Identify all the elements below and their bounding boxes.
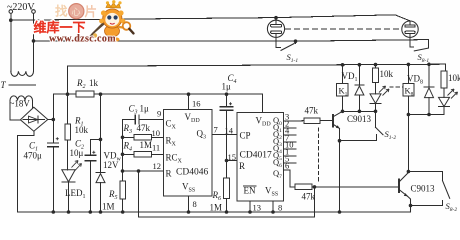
- node emitter tee: [338, 139, 342, 143]
- svg-text:6: 6: [285, 161, 289, 171]
- svg-text:11: 11: [152, 143, 160, 153]
- transformer core: [9, 84, 36, 86]
- transistor Q1 C9013: [333, 111, 343, 128]
- node R6 ground: [225, 210, 229, 214]
- node K1 rail: [341, 63, 345, 67]
- wire oscillator left net: [122, 120, 124, 182]
- svg-text:47k: 47k: [305, 106, 319, 116]
- svg-text:S1-1: S1-1: [287, 52, 299, 64]
- resistor R8 47k channel8: [295, 184, 399, 190]
- wire U1 pin8: [188, 196, 190, 212]
- resistor R2: [76, 91, 94, 97]
- wire dashed channels: [318, 128, 320, 184]
- wire top rail L: [11, 15, 410, 21]
- watermark weiku red text: [34, 20, 117, 45]
- svg-text:VD1: VD1: [342, 71, 358, 83]
- wire K8 bottom bus: [408, 114, 444, 116]
- svg-text:1μ: 1μ: [140, 104, 150, 114]
- svg-text:1k: 1k: [89, 78, 99, 88]
- node pin15: [225, 159, 229, 163]
- svg-text:9: 9: [157, 109, 161, 119]
- node R3 left: [121, 136, 125, 140]
- svg-text:~18V: ~18V: [10, 99, 31, 109]
- zener VDw: [96, 173, 105, 212]
- wire feedback loop: [139, 171, 315, 217]
- transformer T secondary: [10, 96, 33, 120]
- svg-text:10μ: 10μ: [70, 148, 84, 158]
- LED channel1: [370, 86, 389, 127]
- node bridge output: [52, 118, 56, 122]
- svg-text:www.dzsc.com: www.dzsc.com: [49, 34, 116, 45]
- svg-text:CD4046: CD4046: [176, 168, 208, 178]
- wire terminal N down: [33, 13, 35, 41]
- node VD8 rail: [427, 63, 431, 67]
- node reset net: [121, 169, 125, 173]
- resistor 10k channel1: [373, 68, 379, 94]
- svg-text:RCX: RCX: [166, 153, 183, 165]
- pin stub 1: [284, 155, 297, 157]
- node Q2 collector: [407, 170, 411, 174]
- pin stub 6: [284, 169, 291, 171]
- transistor Q2 C9013: [399, 173, 411, 213]
- wire pin 12 reset: [123, 170, 164, 172]
- svg-text:S8-2: S8-2: [446, 201, 458, 213]
- svg-text:T: T: [1, 80, 7, 90]
- node C2 ground: [89, 210, 93, 214]
- node feedback to base: [313, 185, 317, 189]
- svg-text:47k: 47k: [302, 192, 316, 202]
- svg-text:心: 心: [72, 7, 81, 17]
- node rail4 R1: [66, 92, 70, 96]
- wire collector bus: [343, 110, 376, 112]
- node K8 bus: [407, 113, 411, 117]
- svg-text:S1-2: S1-2: [385, 129, 397, 141]
- wire main +V branch down: [100, 94, 102, 172]
- svg-text:47k: 47k: [137, 123, 151, 133]
- pin stub 4: [284, 134, 297, 136]
- svg-text:16: 16: [192, 99, 201, 109]
- node pin13 ground: [248, 210, 252, 214]
- node lamp EL1 top: [274, 16, 278, 20]
- overline EN: [244, 185, 257, 187]
- node rail4 C4: [225, 92, 229, 96]
- svg-text:VDD: VDD: [185, 112, 201, 124]
- switch S1-1: [276, 37, 297, 50]
- lamp EL8: [402, 21, 418, 37]
- svg-text:S8-1: S8-1: [418, 52, 430, 64]
- wire U1 pin16: [188, 94, 190, 109]
- lamp EL1: [267, 20, 284, 37]
- svg-text:CD4017: CD4017: [240, 151, 272, 161]
- svg-text:片: 片: [85, 4, 98, 19]
- resistor R1: [65, 94, 70, 170]
- node collector: [341, 110, 345, 114]
- svg-text:1M: 1M: [210, 203, 223, 213]
- wire terminal L down: [10, 13, 12, 20]
- svg-text:C9013: C9013: [347, 114, 372, 124]
- node K8 rail: [407, 63, 411, 67]
- node pin16 rail4: [187, 92, 191, 96]
- svg-text:7: 7: [214, 125, 218, 135]
- node rail L at transformer: [9, 18, 13, 22]
- svg-text:10k: 10k: [448, 73, 460, 83]
- wire dashed channel gap: [390, 86, 405, 88]
- watermark faded text zhaoxinpian: [55, 4, 97, 20]
- diode VD8: [424, 64, 434, 114]
- node C2 branch: [99, 138, 103, 142]
- resistor R7 47k channel1: [296, 118, 333, 124]
- svg-text:R3: R3: [123, 123, 133, 135]
- svg-text:R: R: [239, 161, 245, 171]
- node C1 ground: [52, 210, 56, 214]
- switch S8-1: [410, 37, 428, 51]
- svg-text:12: 12: [153, 161, 162, 171]
- svg-text:1M: 1M: [102, 202, 115, 212]
- IC U1 CD4046: [163, 110, 212, 197]
- LED channel8: [439, 89, 458, 115]
- svg-text:1M: 1M: [140, 140, 153, 150]
- resistor R6: [224, 161, 230, 213]
- wire dashed between lamps: [286, 28, 402, 30]
- resistor R4: [123, 152, 164, 158]
- svg-text:R2: R2: [76, 78, 86, 90]
- node emitter ground: [338, 210, 342, 214]
- wire Q1 emitter down: [339, 128, 341, 212]
- pin stub 2: [284, 127, 297, 129]
- svg-text:470μ: 470μ: [24, 151, 43, 161]
- svg-text:Q7: Q7: [273, 168, 282, 180]
- svg-text:10k: 10k: [75, 125, 89, 135]
- node rail4 right of R2: [99, 92, 103, 96]
- terminal N: [32, 10, 36, 14]
- svg-text:C3: C3: [129, 104, 138, 116]
- svg-text:VSS: VSS: [265, 186, 278, 198]
- watermark faded seal: [69, 4, 84, 19]
- svg-text:8: 8: [193, 199, 197, 209]
- diode VD1: [355, 65, 364, 112]
- svg-text:RX: RX: [166, 136, 177, 148]
- node VDw ground: [99, 210, 103, 214]
- svg-text:R6: R6: [212, 190, 222, 202]
- svg-text:C9013: C9013: [411, 184, 436, 194]
- pin stub 10: [284, 148, 297, 150]
- svg-text:R5: R5: [108, 189, 118, 201]
- svg-text:CX: CX: [166, 119, 177, 131]
- svg-text:10: 10: [152, 128, 161, 138]
- svg-text:12V: 12V: [103, 160, 119, 170]
- pin stub 7: [284, 141, 297, 143]
- wire ground rail: [18, 211, 411, 213]
- capacitor C2: [85, 139, 101, 212]
- node R4 left: [121, 153, 125, 157]
- svg-text:VSS: VSS: [182, 182, 195, 194]
- svg-text:找: 找: [55, 4, 68, 19]
- node VD1 rail: [358, 63, 362, 67]
- switch S1-2: [340, 127, 384, 140]
- node pin8 ground: [187, 210, 191, 214]
- node LED1 ground: [67, 210, 71, 214]
- pin stub 3: [284, 120, 297, 122]
- capacitor C1: [48, 120, 59, 213]
- wire collector to S8-2: [408, 172, 442, 181]
- relay K8: [403, 64, 414, 171]
- wire Q1 collector: [342, 96, 344, 111]
- svg-text:R4: R4: [123, 141, 133, 153]
- wire rail N: [34, 40, 429, 49]
- svg-text:13: 13: [253, 203, 262, 213]
- node LED chain collector: [374, 110, 378, 114]
- node R5 ground: [121, 210, 125, 214]
- node VD8 bus: [427, 113, 431, 117]
- resistor 10k channel8: [441, 71, 447, 98]
- wire pin7 to pin14: [212, 134, 237, 136]
- node feedback tee: [137, 169, 141, 173]
- svg-text:15: 15: [228, 152, 237, 162]
- resistor R5: [120, 181, 126, 212]
- capacitor C4: [220, 94, 233, 160]
- node Q2 emitter tee: [409, 204, 413, 208]
- wire U2 pin13: [249, 201, 251, 212]
- wire bridge + output: [48, 119, 54, 121]
- capacitor C3: [123, 115, 164, 124]
- node 10k rail: [374, 63, 378, 67]
- svg-text:CP: CP: [240, 131, 251, 141]
- bridge rectifier: [20, 107, 47, 131]
- wire +12V rail3: [68, 64, 446, 94]
- wire U2 pin15: [227, 160, 238, 162]
- mascot: [90, 0, 134, 41]
- svg-text:1μ: 1μ: [222, 82, 232, 92]
- svg-text:Q3: Q3: [197, 129, 207, 141]
- wire bridge - to ground rail: [18, 131, 34, 212]
- svg-text:8: 8: [278, 203, 282, 213]
- svg-text:R: R: [166, 169, 172, 179]
- IC U2 CD4017: [237, 112, 284, 201]
- LED1: [62, 161, 82, 213]
- svg-text:10k: 10k: [380, 69, 394, 79]
- svg-text:14: 14: [225, 126, 234, 136]
- switch S8-2: [411, 181, 450, 206]
- node VD1 collector: [358, 110, 362, 114]
- svg-text:EN: EN: [244, 186, 256, 196]
- relay K1: [337, 65, 349, 96]
- transformer T primary: [11, 20, 34, 76]
- wire rail4 rectified: [53, 94, 262, 119]
- terminal L: [9, 10, 13, 14]
- wire U2 pin8: [272, 201, 274, 212]
- node U2 pin8 ground: [271, 210, 275, 214]
- pin stub 5: [284, 162, 297, 164]
- node rail N at transformer: [32, 39, 36, 43]
- wire Q7 to 47k: [290, 170, 295, 187]
- svg-text:VDD: VDD: [256, 116, 272, 128]
- svg-text:~220V: ~220V: [7, 2, 35, 13]
- resistor R3: [123, 135, 164, 141]
